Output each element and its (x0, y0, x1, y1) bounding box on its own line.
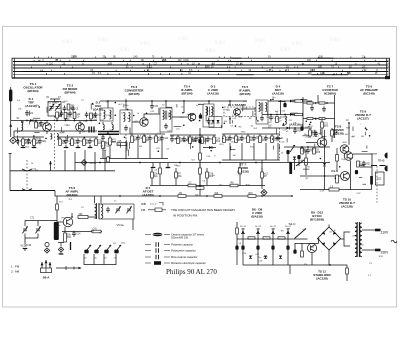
ground bus under IC1 (222, 159, 280, 161)
dial scale right border (386, 58, 388, 78)
rail y171 (10, 170, 115, 172)
tone box (99, 204, 134, 219)
input cap C1 (25, 113, 29, 115)
driver resistor R50 (336, 155, 339, 162)
resistor R1 front (35, 121, 37, 123)
connector diamond 2 (58, 247, 63, 252)
front-end grounds (22, 145, 24, 148)
T4 top leads (94, 196, 96, 203)
potentiometer VC3 (94, 250, 98, 254)
svg-text:100: 100 (307, 59, 312, 62)
left rail drop (13, 131, 15, 137)
diode D4 (290, 100, 293, 103)
TS3 base wire (132, 121, 140, 123)
svg-text:||| |||| ||: ||| |||| || (205, 48, 215, 52)
stub bar (70, 242, 72, 250)
S4 resistors (248, 237, 255, 239)
comps on rail y162 (99, 162, 101, 164)
connector diamond 1 (44, 248, 49, 253)
left AM chain 2 (109, 136, 111, 139)
bridge rectifier D9-D12 (318, 227, 341, 250)
det mid resistor (295, 113, 303, 115)
TS3 collector wire (144, 114, 152, 118)
pot bracket (84, 254, 116, 265)
svg-text:||| |||| ||: ||| |||| || (292, 41, 302, 45)
svg-text:110V: 110V (381, 231, 389, 235)
dot under TS5 (229, 118, 231, 120)
TS6 cap2 (72, 233, 76, 235)
svg-text:120: 120 (178, 59, 183, 62)
svg-text:Polystyrene capacitor: Polystyrene capacitor (171, 249, 196, 253)
gang top lead (54, 99, 56, 102)
potentiometer VC2 (84, 250, 88, 254)
TS11 comps (301, 251, 304, 257)
transformer primary lead (340, 232, 351, 239)
legend row Ceramic capacitor 2/T series (145, 234, 170, 236)
svg-text:R31: R31 (67, 237, 72, 239)
svg-text:Polyester capacitor: Polyester capacitor (171, 243, 193, 247)
det lower comps (293, 130, 297, 132)
ratio det caps (310, 108, 314, 110)
tone left wire (25, 220, 57, 222)
svg-text:570: 570 (73, 56, 78, 59)
input coil L1 (21, 121, 23, 123)
driver comps right (357, 161, 360, 167)
speaker top wire (360, 166, 372, 168)
transistor TS2 (76, 123, 85, 132)
front-end lower components row (16, 141, 20, 143)
svg-text:C71: C71 (30, 218, 35, 220)
svg-text:R28: R28 (316, 152, 321, 154)
osc caps right of gang (63, 108, 67, 110)
svg-text:S4-C: S4-C (288, 222, 296, 226)
corner to TS6 (55, 191, 57, 197)
diode D7 mid (203, 147, 216, 149)
det mid comps (269, 117, 273, 119)
volume wire (284, 146, 330, 148)
rail y190 (10, 190, 55, 192)
diode box D3 (209, 117, 222, 128)
mains transformer (357, 222, 359, 257)
TS7 collector up (321, 118, 323, 138)
speaker resistor bar (370, 176, 373, 185)
emitter resistor 1R5 (329, 188, 339, 191)
audio left rail (324, 130, 326, 162)
svg-text:||| |||| ||: ||| |||| || (98, 37, 108, 41)
svg-text:Philips 90 AL 270: Philips 90 AL 270 (166, 268, 217, 276)
svg-text:1600: 1600 (183, 59, 189, 62)
diode audio rail (323, 163, 326, 166)
tone trimmer 1 (116, 209, 120, 211)
front-end top rail y131 (14, 130, 97, 132)
svg-text:IC 1 TAA570: IC 1 TAA570 (228, 103, 246, 107)
gang dashed link (54, 116, 56, 170)
mains right connections (362, 229, 375, 231)
between TS1 TS2 components (56, 112, 59, 118)
S4 verticals (242, 228, 244, 265)
power misc comps (346, 268, 349, 274)
speaker bottom wire (300, 189, 372, 191)
tone cap (106, 209, 110, 211)
S4 electrolytics (241, 246, 244, 250)
tuning dial scale block (12, 58, 390, 78)
svg-text:2 : AM: 2 : AM (11, 270, 20, 274)
svg-text:||| |||| ||: ||| |||| || (178, 36, 188, 40)
drops to rail y171 (64, 150, 66, 171)
svg-text:MC1a: MC1a (90, 162, 97, 165)
TS10 base line (300, 175, 341, 177)
drops from y101 (107, 101, 109, 108)
svg-text:R31: R31 (67, 117, 72, 119)
IF can T1 (160, 108, 172, 132)
dial scale dark segments (23, 58, 368, 78)
svg-text:VC1b: VC1b (25, 243, 32, 247)
TS1 leads (46, 121, 48, 123)
det caps (283, 103, 286, 107)
transistor TS10 (341, 172, 350, 181)
potentiometer VC4 (104, 250, 108, 254)
right of TS2 components (85, 114, 89, 116)
svg-text:Miniature electrolytic capacit: Miniature electrolytic capacitor (171, 261, 206, 265)
junction dots input (26, 120, 28, 122)
svg-text:1 : FM: 1 : FM (11, 265, 20, 269)
S4 column top arrows (242, 230, 245, 233)
vres above rail y162 (107, 156, 109, 157)
IC1 dashed box (224, 107, 255, 117)
ground bus under TS3 (100, 158, 168, 160)
rod coil 1 (103, 125, 104, 130)
dark cluster TS8 area (286, 150, 289, 154)
gang dash 2 (26, 160, 28, 189)
svg-text:D6 - D8C 2008(BA316): D6 - D8C 2008(BA316) (251, 208, 262, 219)
bridge leads (328, 225, 330, 228)
S4 bottom bus (243, 264, 330, 266)
wire T1 to TS4 (152, 113, 160, 115)
TS6 emitter res (64, 233, 67, 242)
front-end input wire (11, 120, 48, 122)
TS4 collector cap (199, 115, 202, 119)
TS11 down (311, 253, 313, 265)
legend row Polystyrene capacitor (145, 250, 170, 252)
transistor TS3 (140, 118, 148, 126)
cap C2 front (39, 123, 43, 125)
rail y162 mid (75, 162, 330, 164)
stub wire noise (17, 99, 377, 184)
TS9 base wire (348, 123, 350, 145)
wire TS5 to T3 (241, 108, 257, 110)
resistor R22 (78, 216, 88, 219)
svg-text:THE CIRCUIT DIAGRAM HAS BEEN D: THE CIRCUIT DIAGRAM HAS BEEN DRAWN (171, 208, 235, 212)
wire R22-T4 (88, 216, 96, 218)
diamond on rail y162 (81, 160, 87, 166)
transistor TS7 (317, 138, 327, 148)
regulator wire (237, 238, 308, 240)
ratio det row 2 (303, 118, 335, 120)
TS6 base wire (57, 196, 63, 222)
TS7 bias (309, 128, 311, 138)
bias cluster under TS4 (170, 139, 174, 141)
det center rail (280, 101, 282, 115)
speaker box (376, 172, 385, 185)
gnd bar TS6 (59, 253, 64, 255)
svg-text:IN POSITION FM.: IN POSITION FM. (173, 214, 198, 218)
transistor TS1 (43, 123, 52, 132)
left AM chain 1 (102, 136, 104, 138)
svg-text:C14: C14 (76, 233, 81, 235)
legend row Polyester capacitor (145, 244, 170, 246)
svg-text:FM: FM (141, 208, 146, 212)
fuse stub (289, 265, 291, 274)
svg-text:180: 180 (318, 66, 323, 69)
dial bottom border heavy (12, 77, 390, 79)
trimmer VC1c a (23, 229, 27, 231)
connector tee (58, 243, 64, 247)
dial pointer box (385, 76, 390, 79)
IF can T2 (203, 104, 214, 127)
ratio det block right rail (334, 95, 336, 138)
legend row Miniature electrolytic capacitor (145, 262, 170, 264)
power bottom wire (330, 265, 347, 281)
S4 diodes (249, 256, 252, 259)
tuning gang box (48, 102, 61, 117)
svg-text:||| |||| ||: ||| |||| || (62, 39, 72, 43)
drops y162 to y185 (159, 163, 161, 169)
tone R24 (92, 230, 101, 233)
svg-text:||| |||| ||: ||| |||| || (215, 40, 225, 44)
switch S-B contacts (371, 165, 386, 167)
osc coil box S3 (100, 108, 113, 121)
mid verticals y172 (151, 168, 153, 186)
bias cluster under TS3 (131, 134, 133, 136)
cap-ground stub 2 (167, 163, 169, 168)
svg-text:||| |||| ||: ||| |||| || (330, 37, 340, 41)
svg-text:R21: R21 (366, 163, 371, 165)
svg-text:110: 110 (49, 62, 53, 65)
AM gang dashed link (125, 134, 127, 160)
gang trimmer 2 (56, 107, 60, 109)
svg-text:140: 140 (133, 56, 138, 59)
audio right rail (350, 161, 352, 190)
wire antenna down (10, 121, 12, 138)
ghost bleed-through marks top margin (62, 36, 340, 52)
svg-text:||| |||| ||: ||| |||| || (255, 38, 265, 42)
transistor TS5 (234, 109, 241, 116)
connector diamond antenna (10, 137, 16, 143)
volume pot (290, 145, 295, 152)
det mid diode (290, 113, 293, 116)
ground stub VC1c (23, 248, 28, 250)
tone right lead (132, 219, 134, 230)
transistor TS6 (63, 217, 73, 227)
trimmer VC1c b (36, 229, 40, 231)
mid top rail y101 (100, 100, 247, 102)
svg-text:100: 100 (308, 72, 313, 75)
ratio det block left rail (302, 97, 304, 128)
jack half-moons (385, 153, 388, 159)
legend row Mica ceramic capacitor (145, 256, 170, 258)
svg-text:-: - (321, 249, 322, 253)
gang trimmer 1 (50, 107, 54, 109)
svg-text:R16: R16 (297, 130, 302, 132)
transistor TS9a (340, 145, 349, 154)
detector top wire (268, 100, 312, 102)
annotation noise labels (17, 97, 384, 277)
ac tilde (391, 240, 397, 243)
speaker feed (353, 153, 372, 155)
svg-text:VC1a: VC1a (117, 223, 124, 227)
ferrite rod aerial (98, 132, 119, 135)
dial scale left border (13, 58, 15, 78)
TS4 long column (199, 128, 201, 196)
plug pins (375, 229, 381, 232)
bus y196 resistors (178, 195, 186, 198)
svg-text:R16: R16 (216, 141, 221, 143)
arrow stub x50 (50, 161, 52, 171)
arrow antenna lead (9, 124, 12, 127)
mid row y185 (150, 185, 265, 187)
svg-text:||| |||| ||: ||| |||| || (140, 41, 150, 45)
osc coil box S4 (120, 110, 132, 134)
antenna (10, 87, 12, 121)
driver resistor R52 (336, 175, 339, 183)
det top resistor (295, 100, 303, 102)
junction dot noise (22, 99, 370, 180)
svg-text:+: + (334, 228, 336, 232)
dark cap pair right of TS2 (89, 127, 94, 133)
svg-text:Mica ceramic capacitor: Mica ceramic capacitor (171, 255, 198, 259)
diode D1 front (30, 119, 33, 122)
arrow det (282, 123, 285, 126)
svg-text:180: 180 (206, 66, 211, 69)
svg-text:230V: 230V (381, 251, 390, 255)
TS6 bias res (56, 204, 59, 210)
arrow wire bottom (56, 267, 81, 269)
svg-text:3Ω2: 3Ω2 (377, 177, 382, 181)
front-end rail y120 right part (44, 120, 97, 122)
mid column x262 lower (261, 160, 263, 189)
ratio det top stub (317, 95, 319, 103)
potentiometer VC5 (114, 250, 118, 254)
stub below diamond (9, 154, 12, 171)
resistor C17 horizontal (117, 143, 127, 146)
det dashed link (279, 128, 281, 160)
driver transformer T4 (97, 203, 100, 219)
svg-text:S6-A: S6-A (43, 276, 51, 280)
FM coils under gang (51, 134, 52, 140)
IF can T3 (256, 100, 268, 124)
cluster under IC1 (223, 134, 225, 136)
tone trimmer 2 (127, 209, 131, 211)
rod coil 2 (112, 125, 113, 130)
svg-text:||| |||| ||: ||| |||| || (280, 47, 290, 51)
left rail vert (9, 171, 11, 191)
det lower wire (262, 127, 312, 129)
transistor TS4 (188, 113, 196, 121)
S4-C lever (295, 229, 307, 239)
dial scale numbers (42, 56, 380, 75)
TS2 leads (79, 121, 81, 123)
svg-text:WB: WB (141, 202, 146, 206)
diamond mid (261, 190, 267, 196)
connector circle (45, 242, 49, 246)
bus y196 (57, 195, 292, 197)
switch cap rail1 (22, 169, 32, 171)
diode D6 (287, 127, 290, 130)
det mid wire (262, 114, 303, 116)
transistor TS9b (344, 152, 353, 161)
TS6 lower wire (62, 231, 102, 233)
switch cap rail2 (22, 189, 32, 191)
cap-ground stub 1 (152, 163, 154, 168)
S6-A switch (42, 260, 50, 268)
svg-text:R16: R16 (249, 193, 254, 195)
choke dark bar (54, 222, 59, 240)
svg-text:TR-B: TR-B (378, 159, 385, 163)
dial scale ticks (31, 57, 375, 75)
D6-D8 vertical (236, 222, 238, 265)
svg-text:R34: R34 (38, 126, 43, 128)
transistor TS11 (307, 243, 316, 252)
svg-text:||| |||| ||: ||| |||| || (120, 47, 130, 51)
ratio det row 1 (303, 102, 335, 104)
dial scale right edge figures (387, 60, 390, 79)
